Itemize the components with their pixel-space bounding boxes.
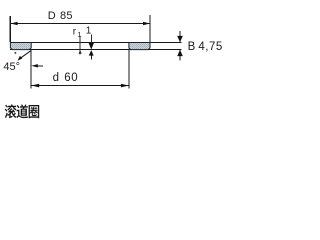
small tip on r1 leader at bottom face (79, 50, 82, 53)
caption hanzi dao (way) (16, 104, 28, 118)
leader stem of value 1 (91, 34, 92, 43)
arrowhead d left (31, 84, 39, 88)
arrowhead bore chamfer pointer (left) (31, 64, 38, 67)
extension line d right (bore) (128, 50, 129, 89)
leader line r1 (80, 36, 81, 55)
arrowhead value-1 upper (down) (89, 43, 94, 50)
arrowhead D right (143, 22, 150, 26)
svg-text:1: 1 (77, 30, 81, 39)
tail of lower arrow of value 1 (91, 55, 92, 59)
caption hanzi gun (roll) (5, 104, 17, 118)
svg-text:45°: 45° (3, 61, 20, 73)
tail of bore chamfer arrow (38, 65, 43, 66)
extension line B top (151, 42, 182, 43)
svg-text:D: D (48, 10, 56, 22)
svg-text:B: B (188, 41, 196, 53)
washer left cross-section (10, 43, 31, 50)
dimension line D (11, 23, 151, 24)
caption hanzi quan (ring) (29, 105, 40, 118)
leader line 45 deg chamfer (19, 51, 31, 60)
dimension line B lower segment (179, 50, 180, 60)
washer right cross-section (129, 43, 150, 50)
washer top outline (10, 42, 151, 43)
arrowhead D left (11, 22, 18, 26)
svg-text:60: 60 (64, 72, 78, 84)
extension line D right (149, 15, 150, 42)
extension line B bottom (151, 49, 182, 50)
arrowhead d right (121, 84, 129, 88)
arrowhead 45 deg leader (18, 56, 23, 61)
svg-text:d: d (53, 72, 59, 84)
svg-text:85: 85 (60, 10, 73, 22)
arrowhead value-1 lower (up) (89, 50, 94, 56)
svg-text:4,75: 4,75 (198, 41, 222, 53)
dimension line d (31, 85, 129, 86)
extension line D left (10, 16, 11, 42)
arrowhead B top (down) (177, 36, 183, 42)
svg-text:1: 1 (86, 26, 92, 37)
washer bottom outline (10, 49, 151, 50)
extension line d left (bore) (31, 50, 32, 89)
dot near chamfer leader (14, 52, 16, 54)
arrowhead B bottom (up) (177, 50, 183, 56)
dimension line B upper segment (179, 31, 180, 42)
